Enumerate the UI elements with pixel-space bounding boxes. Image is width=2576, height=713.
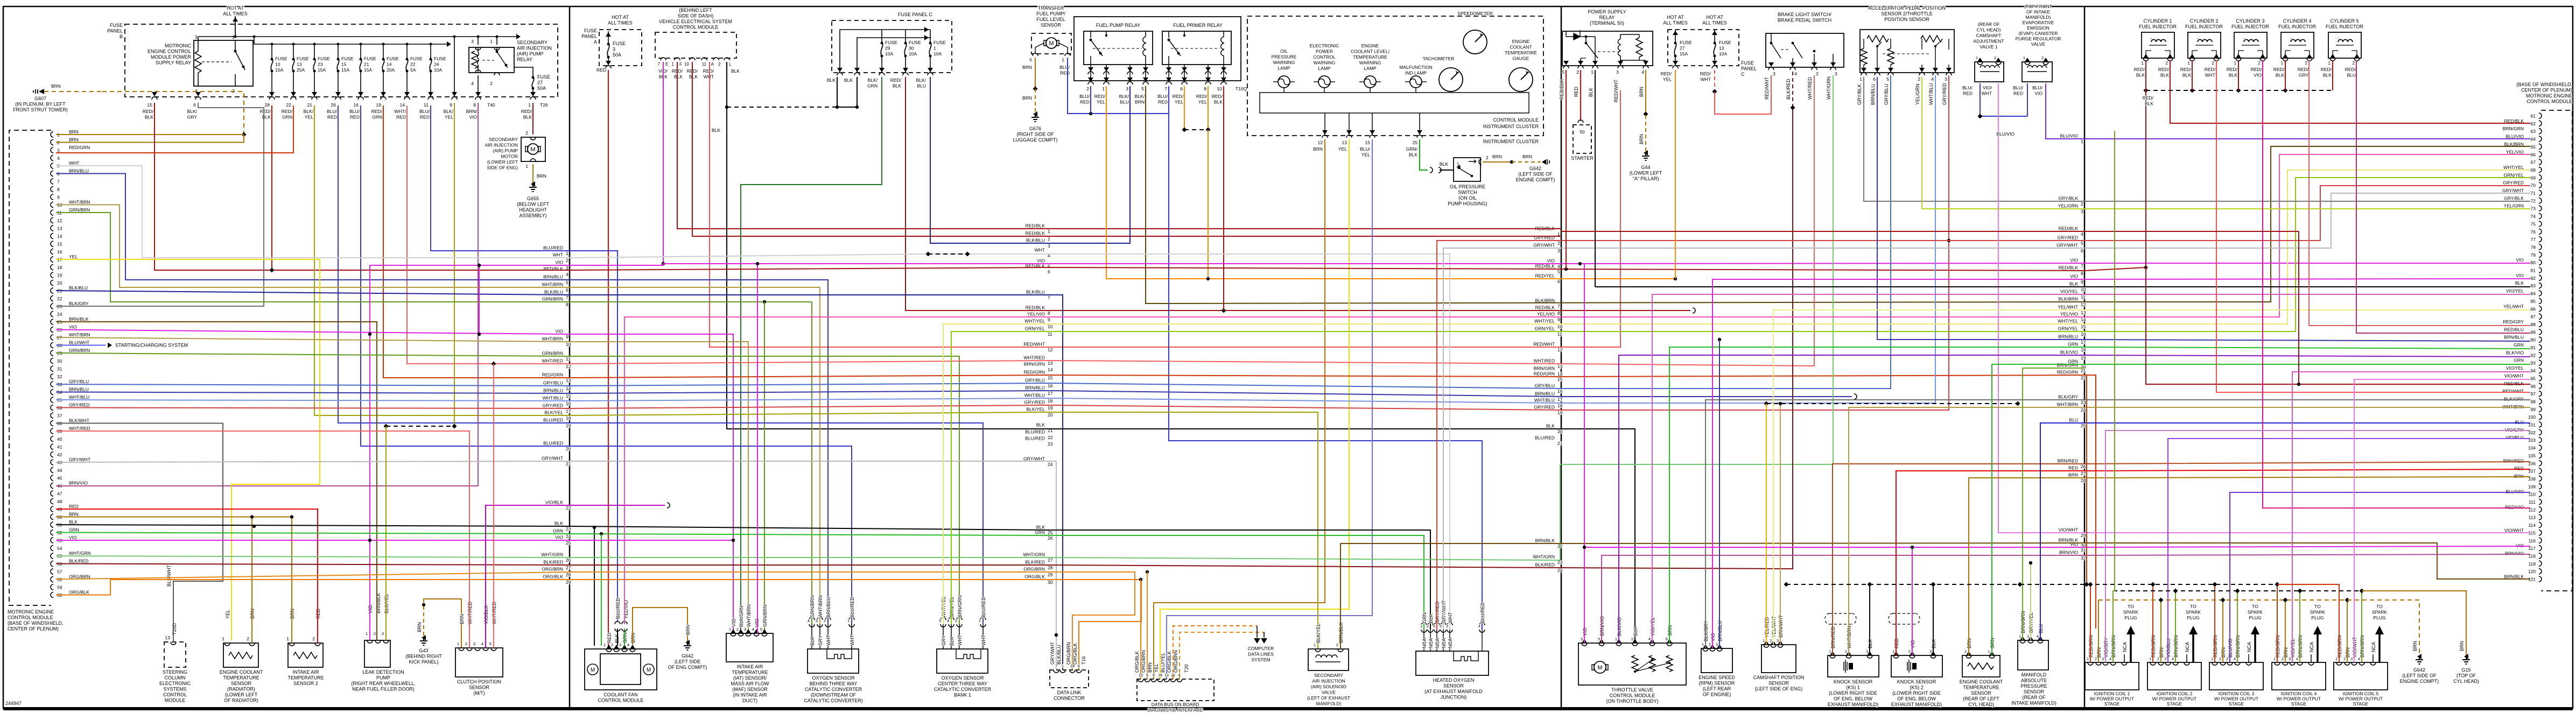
- svg-text:BRN: BRN: [1313, 146, 1323, 152]
- svg-text:4: 4: [1557, 264, 1560, 269]
- svg-text:BRN: BRN: [537, 173, 546, 179]
- wire RED/GRN: [383, 105, 570, 378]
- svg-text:WHT/GRN: WHT/GRN: [541, 552, 563, 557]
- svg-text:113: 113: [2528, 515, 2536, 520]
- svg-text:RED/: RED/: [282, 109, 293, 114]
- svg-text:BLU/RED: BLU/RED: [543, 245, 563, 251]
- svg-text:64: 64: [2531, 137, 2536, 142]
- ECM pin 86: [2539, 306, 2542, 312]
- svg-text:STARTER: STARTER: [1571, 156, 1594, 161]
- svg-text:1: 1: [1976, 55, 1978, 60]
- svg-text:(RIGHT SIDE OF: (RIGHT SIDE OF: [1016, 132, 1054, 137]
- svg-text:BLK: BLK: [712, 128, 720, 133]
- Motronic engine control module connector (left strip): [9, 130, 51, 605]
- ECM pin 49: [51, 506, 53, 512]
- svg-text:6: 6: [1180, 86, 1183, 91]
- svg-text:STARTING/CHARGING SYSTEM: STARTING/CHARGING SYSTEM: [115, 343, 188, 348]
- svg-text:3: 3: [1716, 643, 1718, 647]
- svg-text:15: 15: [566, 393, 571, 399]
- svg-text:68: 68: [2531, 167, 2536, 173]
- svg-text:30: 30: [57, 358, 62, 364]
- ignition coil 2 spark plug lead: [2192, 634, 2194, 662]
- ECM pin 14: [51, 234, 53, 239]
- svg-text:GRY/BLU: GRY/BLU: [69, 379, 89, 384]
- fuse 27 50A: [532, 76, 535, 79]
- wire GRY/YEL: [2030, 563, 2031, 640]
- wire BLK/VIO: [1619, 355, 2530, 643]
- wire VIO: [757, 264, 758, 633]
- svg-text:BLU/: BLU/: [349, 109, 360, 114]
- wire BRN/GRN: [2023, 368, 2084, 640]
- svg-text:ELECTRONIC: ELECTRONIC: [1310, 43, 1339, 48]
- wire VIO: [570, 540, 733, 541]
- svg-text:10: 10: [1048, 324, 1053, 329]
- svg-text:GRY/RED: GRY/RED: [2057, 235, 2078, 241]
- svg-text:INTAKE AIR: INTAKE AIR: [293, 669, 319, 675]
- svg-text:T40: T40: [487, 102, 495, 108]
- svg-text:FUEL INJECTOR: FUEL INJECTOR: [2185, 24, 2223, 30]
- svg-text:LAMP: LAMP: [1318, 66, 1330, 71]
- svg-text:BLK: BLK: [2136, 73, 2145, 78]
- fuel relay pin 5: [1145, 65, 1146, 81]
- svg-text:81: 81: [2531, 268, 2536, 273]
- ECM pin 64: [2539, 136, 2542, 142]
- svg-text:(AIR) SOLENOID: (AIR) SOLENOID: [1311, 684, 1346, 689]
- svg-text:57: 57: [57, 569, 62, 575]
- svg-text:A: A: [594, 39, 597, 45]
- wire BRN/GRN: [2299, 591, 2300, 662]
- svg-text:18: 18: [2081, 347, 2086, 352]
- svg-text:BRN: BRN: [2412, 641, 2418, 651]
- wire BLU/RED: [570, 423, 983, 624]
- steering column electronic systems control module (dashed box): [164, 642, 186, 667]
- svg-text:BLU/: BLU/: [327, 109, 338, 114]
- svg-text:1: 1: [672, 62, 675, 67]
- svg-text:BLK: BLK: [1440, 161, 1448, 167]
- svg-text:22: 22: [566, 505, 571, 511]
- svg-text:4: 4: [2081, 231, 2083, 237]
- svg-text:16: 16: [354, 102, 359, 108]
- svg-text:97: 97: [2531, 391, 2536, 397]
- svg-text:RED/GRY: RED/GRY: [2503, 319, 2524, 324]
- fuse 24 10A: [430, 58, 432, 61]
- wire WHT/RED: [493, 364, 494, 648]
- svg-text:16: 16: [2081, 331, 2086, 337]
- svg-text:3: 3: [939, 618, 941, 623]
- svg-text:BLK: BLK: [1036, 422, 1045, 428]
- svg-text:VIO: VIO: [2516, 273, 2524, 278]
- wire BRN/BLU: [56, 392, 570, 394]
- svg-text:BLK/: BLK/: [187, 109, 198, 114]
- svg-text:FUSE: FUSE: [1741, 60, 1754, 66]
- accel pedal sensor pin 1: [1863, 65, 1864, 73]
- svg-text:WARNING: WARNING: [1359, 60, 1381, 66]
- svg-text:ORG/BRN: ORG/BRN: [1023, 567, 1045, 572]
- svg-text:GRN: GRN: [1035, 530, 1045, 535]
- svg-text:84: 84: [2531, 291, 2536, 297]
- svg-text:24: 24: [566, 534, 571, 539]
- svg-text:BLU/: BLU/: [1059, 65, 1070, 70]
- svg-text:BRN: BRN: [685, 625, 691, 635]
- svg-text:OF ENGINE): OF ENGINE): [1703, 692, 1731, 697]
- svg-text:4: 4: [2296, 658, 2298, 661]
- fuse panel B output pin 26: [335, 92, 341, 96]
- ECM pin 28: [51, 343, 53, 348]
- svg-text:SYSTEMS: SYSTEMS: [163, 687, 186, 692]
- fuel injector common feed dashed bus: [2146, 90, 2333, 91]
- ECM pin 18: [51, 265, 53, 270]
- svg-text:RED: RED: [1158, 100, 1168, 105]
- svg-text:BLK/RED: BLK/RED: [1535, 562, 1555, 568]
- svg-text:GRY/BLU: GRY/BLU: [1025, 378, 1045, 383]
- svg-text:BRN/BLU: BRN/BLU: [543, 274, 563, 280]
- knock sensor (KS) 1: [1828, 655, 1879, 677]
- ECM pin 9: [51, 194, 53, 200]
- wire VIO/YEL: [2292, 372, 2530, 662]
- svg-text:4: 4: [2358, 658, 2360, 661]
- svg-text:RED: RED: [1060, 70, 1070, 76]
- wire VIO: [570, 334, 733, 633]
- knock sensor (KS) 2: [1891, 655, 1942, 677]
- svg-text:RED/VIO: RED/VIO: [2505, 504, 2524, 510]
- svg-text:(TERMINAL 50): (TERMINAL 50): [1590, 20, 1624, 26]
- wire BLK: [1869, 584, 1870, 655]
- svg-text:M: M: [1597, 665, 1602, 671]
- svg-text:G642: G642: [1529, 166, 1541, 171]
- svg-text:WHT: WHT: [553, 252, 563, 258]
- fuse 3 50A: [607, 43, 610, 46]
- svg-text:ENGINE COOLANT: ENGINE COOLANT: [1960, 679, 2003, 684]
- svg-text:ORG/BRN: ORG/BRN: [1173, 650, 1178, 673]
- svg-text:VIO/YEL: VIO/YEL: [2060, 289, 2078, 294]
- svg-text:28: 28: [566, 572, 571, 577]
- svg-text:RED/: RED/: [2273, 67, 2285, 72]
- wire RED/BLK: [2298, 231, 2299, 384]
- svg-text:6: 6: [1433, 625, 1435, 629]
- svg-text:BRN: BRN: [69, 129, 79, 135]
- svg-text:22: 22: [57, 296, 62, 301]
- wire RED/BLK: [906, 77, 1690, 310]
- wire RED: [56, 509, 318, 643]
- svg-text:BLK/: BLK/: [868, 77, 878, 83]
- svg-text:15: 15: [57, 242, 62, 247]
- svg-text:(RPM) SENSOR: (RPM) SENSOR: [1699, 681, 1735, 686]
- ECM pin 93: [2539, 360, 2542, 365]
- ECM pin 6: [51, 171, 53, 177]
- svg-text:3: 3: [1835, 71, 1837, 76]
- svg-text:RED/: RED/: [1094, 94, 1106, 99]
- wire RED: [608, 70, 609, 646]
- svg-text:SPARK: SPARK: [2123, 610, 2139, 615]
- power supply relay pin 2: [1578, 61, 1583, 65]
- wire BLK/BLU: [930, 77, 1130, 243]
- ECM pin 103: [2539, 437, 2542, 443]
- svg-text:VIO/WHT: VIO/WHT: [2504, 373, 2524, 378]
- svg-text:ORG/BRN: ORG/BRN: [1141, 650, 1146, 673]
- svg-text:THROTTLE VALVE: THROTTLE VALVE: [1611, 687, 1653, 693]
- svg-text:2: 2: [955, 618, 957, 623]
- svg-text:244947: 244947: [5, 701, 22, 706]
- svg-text:RED/GRN: RED/GRN: [2057, 370, 2078, 375]
- fuse 21 15A: [360, 58, 362, 61]
- wire VIO/GRY: [2105, 430, 2530, 662]
- svg-text:9: 9: [450, 102, 452, 108]
- svg-text:BLU/: BLU/: [2032, 85, 2043, 90]
- wire ORG/BLK: [570, 580, 1141, 670]
- svg-text:30: 30: [1048, 580, 1053, 585]
- svg-text:BLU/: BLU/: [1079, 94, 1090, 99]
- svg-text:2: 2: [1486, 155, 1489, 160]
- svg-text:YEL: YEL: [1097, 100, 1105, 105]
- wire RED/WHT: [1715, 75, 1771, 114]
- svg-text:ENGINE: ENGINE: [1361, 43, 1379, 48]
- wire BRN: [251, 517, 252, 644]
- clutch position sensor (M/T): [455, 648, 503, 677]
- svg-text:BLU: BLU: [917, 83, 926, 89]
- wire BLK/YEL: [385, 426, 387, 640]
- throttle valve module pin 2: [1632, 643, 1638, 646]
- svg-text:BLK: BLK: [1409, 152, 1417, 158]
- svg-text:29: 29: [1048, 572, 1053, 577]
- wire RED/BLK: [2192, 60, 2193, 90]
- ECM pin 45: [51, 475, 53, 481]
- svg-text:99: 99: [2531, 407, 2536, 412]
- svg-text:RED/: RED/: [1661, 71, 1672, 76]
- wire BRN/VIO: [56, 103, 478, 486]
- svg-text:NCA: NCA: [1448, 638, 1453, 648]
- svg-text:75: 75: [2531, 221, 2536, 227]
- wire BRN/RED: [1833, 462, 2530, 655]
- wire RED/BLK: [271, 105, 272, 270]
- svg-text:CYL HEAD): CYL HEAD): [2453, 679, 2479, 684]
- wire WHT: [570, 254, 1450, 630]
- svg-text:SECONDARY: SECONDARY: [1314, 673, 1343, 678]
- svg-text:TEMPERATIRE: TEMPERATIRE: [1505, 50, 1537, 55]
- svg-text:17: 17: [1048, 391, 1053, 396]
- ECM pin 1: [51, 132, 53, 137]
- svg-text:YEL/WHT: YEL/WHT: [2503, 303, 2524, 309]
- wire BRN: [2222, 600, 2223, 662]
- svg-text:(DOWNSTREAM OF: (DOWNSTREAM OF: [811, 693, 856, 698]
- svg-text:BRN/GRN: BRN/GRN: [2503, 126, 2524, 131]
- svg-text:65: 65: [2531, 144, 2536, 150]
- svg-text:YEL/VIO: YEL/VIO: [1027, 312, 1045, 317]
- svg-text:ENGINE COMPT): ENGINE COMPT): [1516, 177, 1555, 182]
- svg-text:WHT: WHT: [704, 74, 714, 80]
- svg-text:CONTROL MODULE: CONTROL MODULE: [598, 698, 644, 703]
- svg-text:4: 4: [947, 618, 949, 623]
- svg-text:YEL: YEL: [1361, 152, 1370, 158]
- fuse panel B output pin 1: [530, 92, 536, 96]
- svg-text:WHT: WHT: [1982, 91, 1992, 96]
- ECM pin 50: [51, 514, 53, 520]
- cylinder 3 fuel injector: [2234, 32, 2267, 58]
- svg-text:72: 72: [2531, 198, 2536, 203]
- cylinder 5 fuel injector: [2328, 32, 2361, 58]
- ECM pin 99: [2539, 406, 2542, 412]
- ECM pin 25: [51, 319, 53, 324]
- wire GRN/BRN: [764, 302, 765, 633]
- ground G44: [1642, 153, 1650, 160]
- svg-text:BLK/BRN: BLK/BRN: [2059, 297, 2078, 302]
- wire GRY/WHT: [56, 461, 570, 462]
- ECM pin 83: [2539, 283, 2542, 288]
- svg-text:2: 2: [1086, 86, 1089, 91]
- svg-text:CONTROL MODULE: CONTROL MODULE: [1610, 693, 1655, 698]
- svg-text:6: 6: [1666, 637, 1668, 641]
- ECM pin 116: [2539, 538, 2542, 543]
- svg-text:BLK/BLU: BLK/BLU: [544, 290, 563, 295]
- svg-text:BRN: BRN: [1522, 154, 1532, 159]
- svg-text:BLK/BLU: BLK/BLU: [1026, 290, 1045, 295]
- ECM pin 48: [51, 499, 53, 504]
- svg-text:2: 2: [312, 636, 315, 641]
- fuel relay pin 6: [1184, 65, 1185, 81]
- svg-text:10A: 10A: [933, 51, 942, 57]
- knock sensor 2 shield: [1889, 613, 1920, 624]
- svg-text:3: 3: [1866, 650, 1868, 654]
- ECM pin 34: [51, 390, 53, 395]
- svg-text:41: 41: [57, 444, 62, 450]
- svg-text:7: 7: [2081, 263, 2083, 269]
- ECM pin 71: [2539, 190, 2542, 196]
- svg-text:3: 3: [471, 39, 474, 44]
- wire BLU/VIO: [2230, 492, 2530, 662]
- svg-text:RED/GRN: RED/GRN: [1024, 370, 1045, 375]
- svg-text:SPARK: SPARK: [2248, 610, 2263, 615]
- svg-text:93: 93: [2531, 361, 2536, 366]
- svg-text:ENGINE: ENGINE: [1512, 39, 1530, 44]
- svg-text:GRY/WHT: GRY/WHT: [69, 457, 90, 462]
- svg-text:MANIFOLD): MANIFOLD): [2026, 15, 2051, 20]
- svg-text:T10Q: T10Q: [1236, 86, 1247, 91]
- ECM pin 40: [51, 436, 53, 442]
- wire RED/GRN: [2152, 584, 2153, 662]
- svg-text:13: 13: [165, 635, 171, 640]
- svg-text:89: 89: [2531, 329, 2536, 335]
- svg-text:RED/GRN: RED/GRN: [542, 372, 563, 378]
- svg-text:RELAY: RELAY: [1599, 15, 1615, 20]
- svg-text:BRN/BLU: BRN/BLU: [826, 597, 831, 618]
- svg-text:40: 40: [57, 436, 62, 442]
- svg-text:SIDE OF ENG): SIDE OF ENG): [487, 165, 518, 171]
- svg-text:3: 3: [473, 641, 475, 646]
- ECM pin 8: [51, 187, 53, 192]
- oil pressure switch: [1454, 158, 1480, 181]
- svg-text:15A: 15A: [364, 67, 372, 73]
- svg-text:NCA: NCA: [2122, 642, 2128, 652]
- svg-text:BLU/: BLU/: [1360, 146, 1371, 152]
- ECM pin 91: [2539, 345, 2542, 350]
- svg-text:TACHOMETER: TACHOMETER: [1423, 56, 1455, 61]
- wire BRN/BLU: [570, 391, 1852, 397]
- svg-text:(LEFT OF EXHAUST: (LEFT OF EXHAUST: [1307, 695, 1350, 701]
- svg-text:BRN: BRN: [1022, 95, 1032, 101]
- wire BLK: [594, 526, 595, 646]
- svg-text:3: 3: [382, 631, 384, 636]
- svg-text:28: 28: [265, 102, 270, 108]
- wire BRN: [2098, 600, 2099, 662]
- wire GRN: [56, 533, 570, 534]
- svg-text:ELECTRONIC: ELECTRONIC: [159, 681, 191, 686]
- svg-text:4: 4: [808, 618, 810, 623]
- svg-text:CYLINDER 4: CYLINDER 4: [2283, 18, 2311, 24]
- svg-text:VIO/WHT: VIO/WHT: [2504, 527, 2524, 533]
- svg-text:GRY/BLU: GRY/BLU: [1884, 84, 1889, 105]
- svg-text:TO: TO: [2252, 604, 2258, 609]
- svg-text:INTAKE AIR: INTAKE AIR: [737, 664, 763, 669]
- svg-text:BRAKE LIGHT SWITCH/: BRAKE LIGHT SWITCH/: [1778, 12, 1831, 17]
- svg-text:(LOWER RIGHT SIDE: (LOWER RIGHT SIDE: [1892, 690, 1941, 696]
- wire BLK: [1440, 170, 1454, 171]
- svg-text:BRN/VIO: BRN/VIO: [2505, 550, 2524, 556]
- wire GRN/BLK: [1420, 139, 1428, 170]
- svg-text:RED: RED: [596, 67, 606, 73]
- wire BLU/RED: [570, 446, 852, 624]
- wire GRY/RED: [570, 75, 1949, 410]
- wire RED/YEL: [1208, 86, 1209, 130]
- svg-text:20: 20: [57, 280, 62, 286]
- svg-text:(BASE OF WINDSHIELD,: (BASE OF WINDSHIELD,: [8, 620, 64, 626]
- svg-text:B: B: [120, 34, 123, 39]
- svg-text:GRN: GRN: [2514, 342, 2524, 348]
- svg-text:6: 6: [1048, 269, 1050, 274]
- ground G15: [2462, 656, 2470, 664]
- svg-text:10: 10: [2081, 287, 2086, 292]
- svg-text:1: 1: [1591, 69, 1594, 75]
- svg-text:9: 9: [566, 334, 568, 340]
- ECM pin 65: [2539, 144, 2542, 149]
- oxygen sensor behind three way catalytic converter (downstream): [808, 649, 859, 673]
- svg-text:SECONDARY: SECONDARY: [489, 137, 518, 142]
- svg-text:SENSOR: SENSOR: [1768, 681, 1789, 686]
- svg-text:VIO: VIO: [2070, 258, 2078, 263]
- svg-text:RED/WHT: RED/WHT: [1023, 342, 1045, 347]
- svg-text:WHT/BRN: WHT/BRN: [2056, 402, 2078, 407]
- svg-text:2: 2: [465, 641, 467, 646]
- ECM pin 16: [51, 249, 53, 255]
- svg-text:BLK: BLK: [554, 521, 563, 526]
- svg-text:BLK: BLK: [1546, 423, 1555, 429]
- wire VIO: [370, 265, 570, 266]
- svg-text:BRN: BRN: [459, 614, 465, 624]
- ECM pin 70: [2539, 182, 2542, 188]
- svg-text:YEL: YEL: [445, 115, 453, 120]
- ECM pin 98: [2539, 399, 2542, 404]
- svg-text:BRN: BRN: [1135, 100, 1145, 105]
- svg-text:WHT/RED: WHT/RED: [1533, 358, 1555, 364]
- svg-text:GRN: GRN: [2514, 358, 2524, 363]
- wire RED/GRY: [2309, 60, 2530, 326]
- svg-text:RED/BLK: RED/BLK: [2059, 226, 2079, 231]
- wire RED/GRN: [2090, 584, 2091, 662]
- ECM pin 60: [51, 592, 53, 598]
- svg-text:2: 2: [1576, 69, 1579, 75]
- svg-text:GRY/RED: GRY/RED: [2503, 180, 2524, 186]
- svg-text:TO: TO: [2376, 604, 2383, 609]
- svg-text:13: 13: [566, 378, 571, 383]
- svg-text:13: 13: [1719, 46, 1724, 51]
- svg-text:WHT: WHT: [850, 634, 855, 646]
- svg-text:TEMPERATURE: TEMPERATURE: [1963, 685, 1999, 690]
- svg-text:GRY/BLU: GRY/BLU: [543, 380, 563, 386]
- wire BRN/BLU: [570, 280, 828, 624]
- svg-text:RED/: RED/: [2227, 67, 2238, 72]
- power supply relay pin 4: [1643, 61, 1648, 65]
- svg-text:CYLINDER 2: CYLINDER 2: [2189, 18, 2218, 24]
- svg-text:WARNING: WARNING: [1314, 60, 1336, 66]
- ECM pin 95: [2539, 376, 2542, 381]
